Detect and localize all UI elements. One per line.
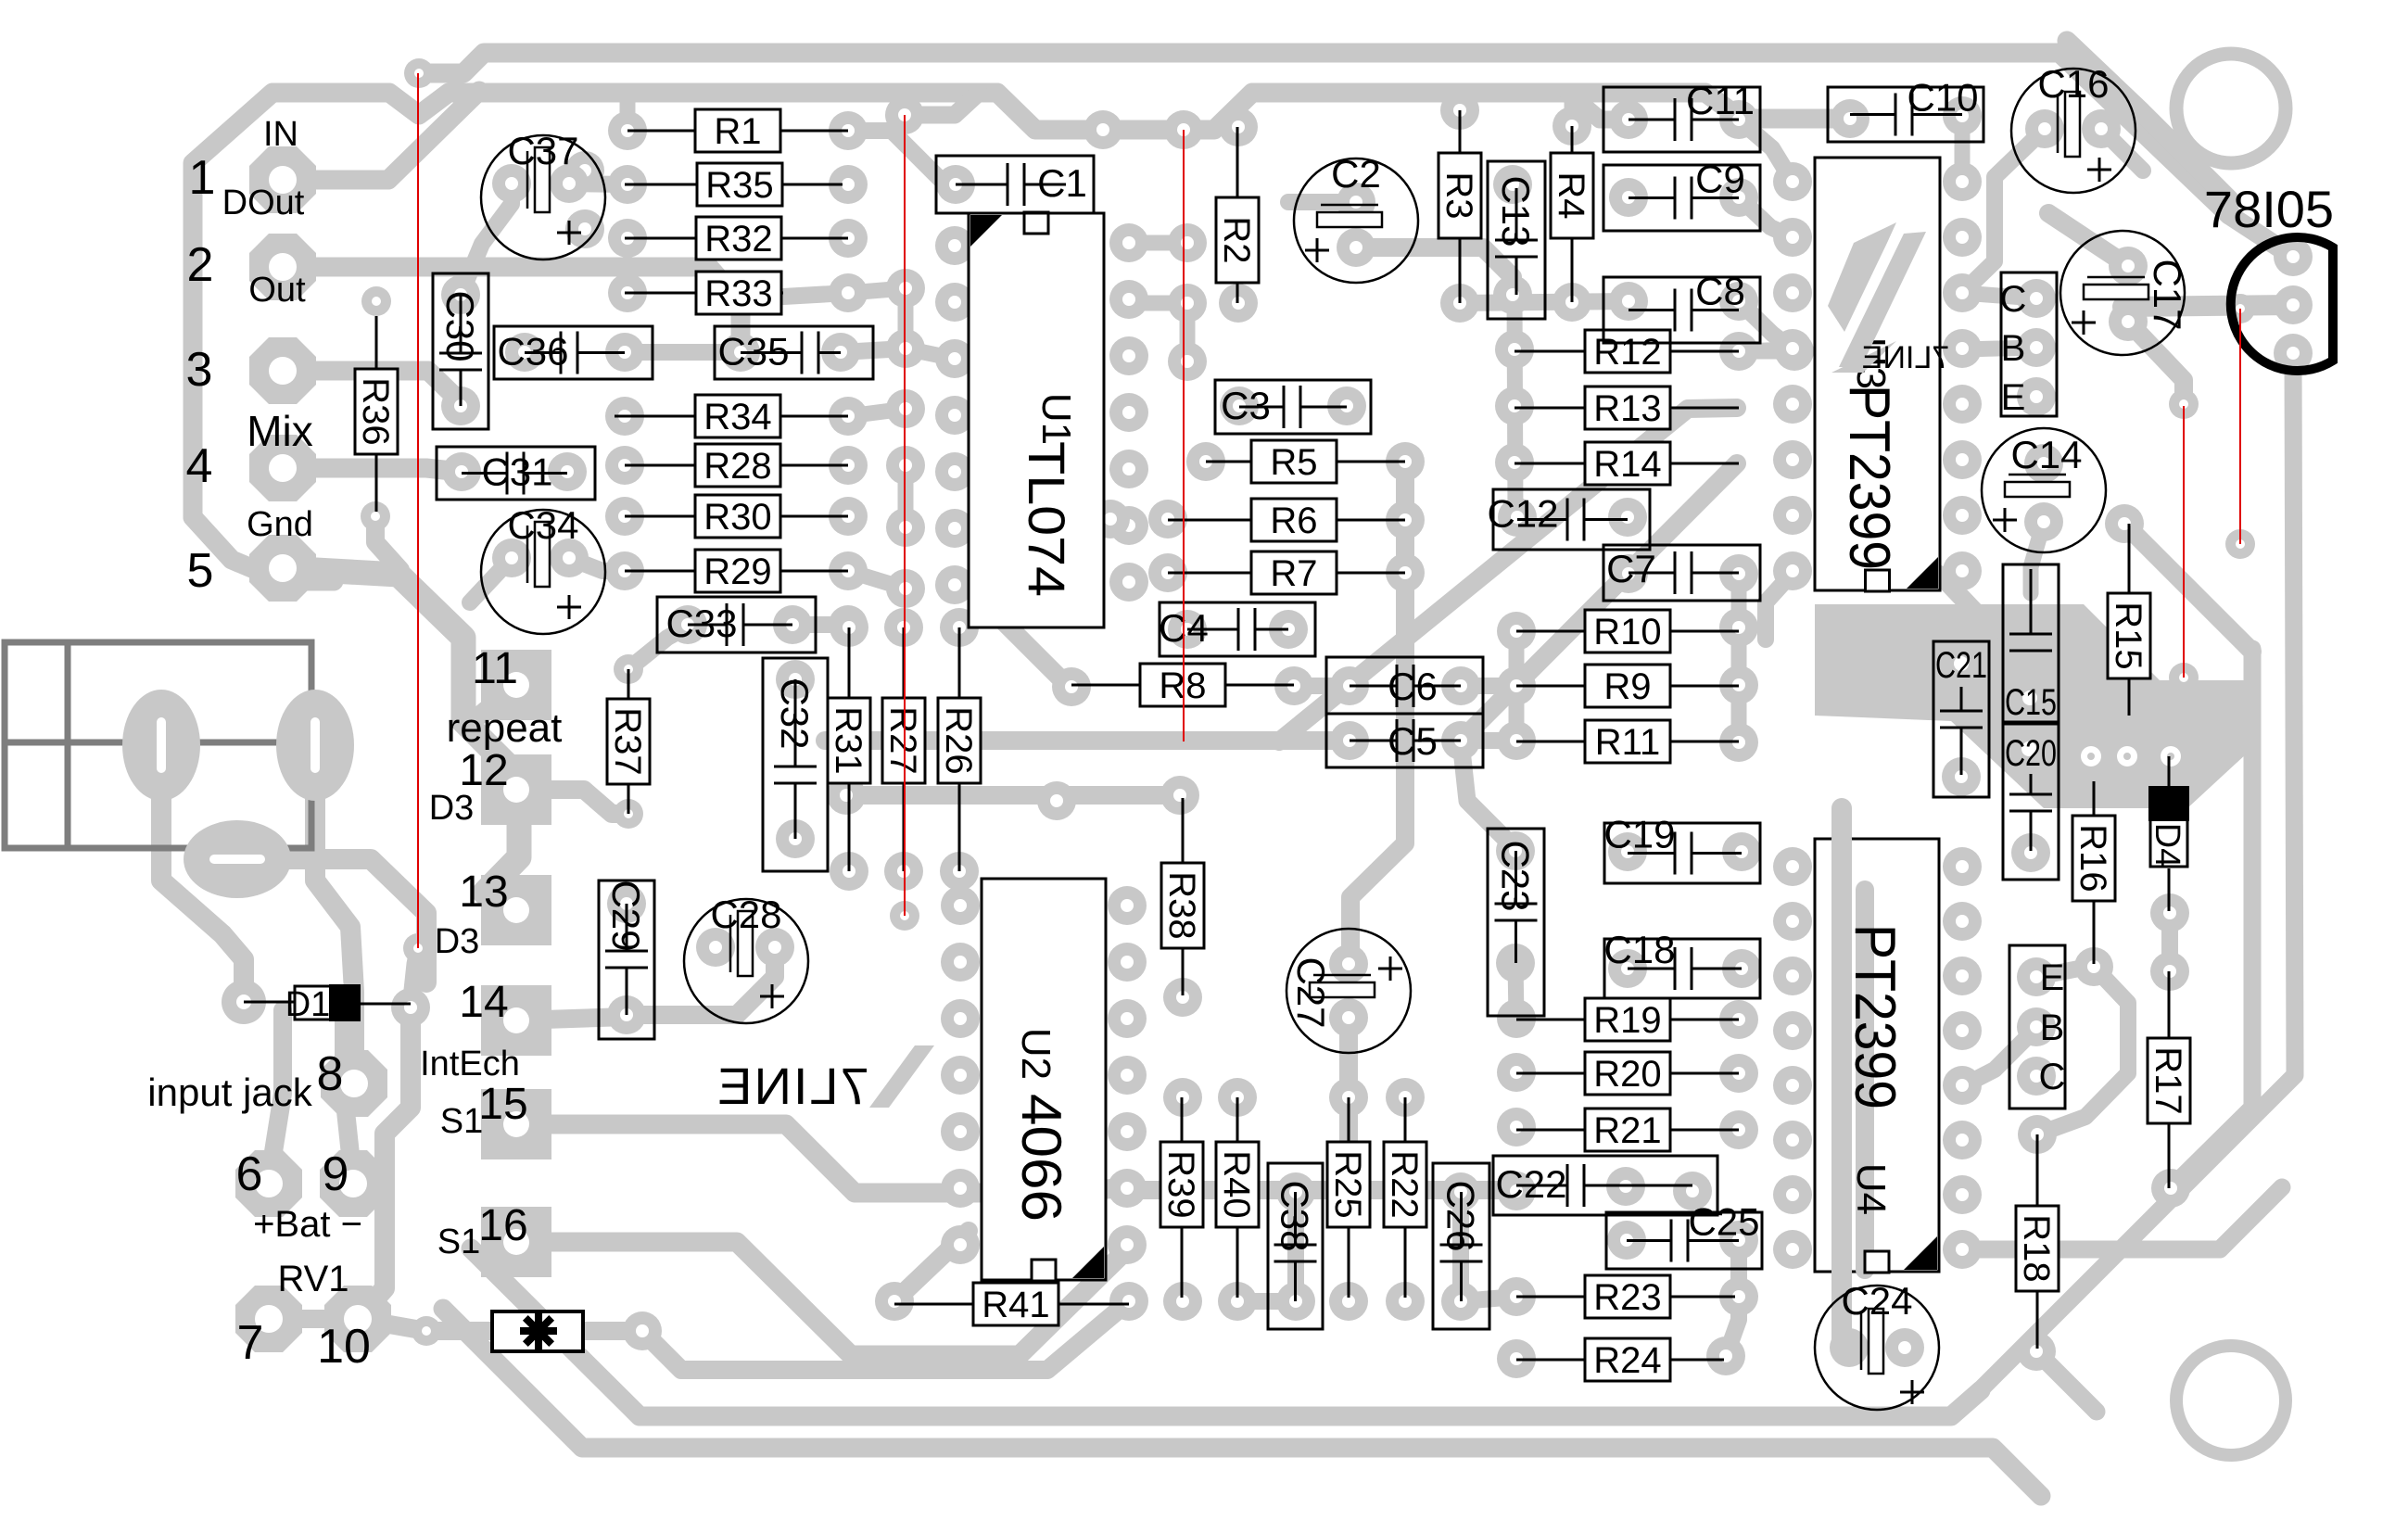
watermark logo inside U3 xyxy=(1839,232,1926,367)
R15/R16/D4/R17/R18 pads xyxy=(2105,504,2144,543)
wire R33 long xyxy=(783,293,848,297)
wire C11/C9/C8 to U3 xyxy=(1739,120,1793,182)
x977 pad chain xyxy=(886,269,925,308)
left resistor col pads xyxy=(608,111,647,150)
C25/R23/R24 pads xyxy=(1607,1221,1646,1260)
resistor R38 xyxy=(1182,798,1185,863)
pour vias xyxy=(2081,746,2101,766)
capacitor C10 xyxy=(1828,87,1983,142)
C30/C36/C35/C31 pads xyxy=(441,275,480,314)
svg-text:RV1: RV1 xyxy=(277,1259,349,1299)
svg-text:R31: R31 xyxy=(828,706,868,774)
capacitor C24 (electrolytic) xyxy=(1815,1286,1939,1410)
resistor R8 xyxy=(1071,684,1140,687)
wire C16 region xyxy=(1962,129,2045,293)
C19/C18 pads xyxy=(1608,832,1647,871)
svg-text:E: E xyxy=(2001,377,2026,418)
capacitor C30 xyxy=(433,273,488,429)
capacitor C1 xyxy=(936,156,1094,213)
resistor R37 xyxy=(627,669,630,699)
wire 11 to gnd band xyxy=(468,685,516,725)
svg-text:C8: C8 xyxy=(1695,270,1745,313)
C27 pads xyxy=(1329,944,1368,983)
resistor R24 xyxy=(1516,1359,1585,1362)
capacitor C34 (electrolytic) xyxy=(481,510,605,634)
svg-text:C13: C13 xyxy=(1494,175,1538,247)
svg-text:16: 16 xyxy=(478,1201,527,1250)
svg-text:R5: R5 xyxy=(1270,442,1317,483)
svg-text:C21: C21 xyxy=(1935,645,1987,686)
svg-text:DOut: DOut xyxy=(222,184,305,222)
svg-text:R3: R3 xyxy=(1438,171,1479,219)
resistor R3 xyxy=(1459,110,1462,153)
wire to pads 6/9 xyxy=(269,1010,283,1181)
capacitor C27 (electrolytic) xyxy=(1286,929,1411,1053)
R37 pads xyxy=(614,654,643,684)
C24 pads xyxy=(1830,1328,1869,1367)
svg-text:R9: R9 xyxy=(1603,666,1651,707)
svg-text:R35: R35 xyxy=(705,165,773,206)
svg-text:C30: C30 xyxy=(438,290,482,361)
C15/C20/C21 pads xyxy=(2011,833,2050,872)
svg-text:2: 2 xyxy=(187,238,214,292)
svg-text:4: 4 xyxy=(186,439,213,493)
wire C36-C35 row xyxy=(625,344,741,361)
wire R31/R27/R26 top row long xyxy=(825,731,1339,750)
resistor R34 xyxy=(615,415,695,418)
U1 right extra xyxy=(1168,223,1207,262)
resistor R12 xyxy=(1515,350,1585,353)
diode D1 xyxy=(244,1001,295,1004)
R6/R7 pads xyxy=(1091,500,1130,538)
capacitor C2 (electrolytic) xyxy=(1294,158,1418,283)
wire R24 right diag xyxy=(1726,1240,1739,1356)
capacitor C17 (electrolytic) xyxy=(2060,231,2185,355)
wire 15 to U2 xyxy=(516,1124,1127,1193)
capacitor C21 xyxy=(1933,641,1989,797)
C11/C9/C8/C10 pads xyxy=(1609,100,1648,139)
resistor R41 xyxy=(894,1303,973,1306)
resistor R9 xyxy=(1516,685,1585,688)
R2/C2/R3/C13/R4 pads xyxy=(1219,108,1258,146)
svg-text:+Bat −: +Bat − xyxy=(253,1204,362,1245)
transistor 78I05 TO-92 outline xyxy=(2231,237,2333,371)
svg-text:R23: R23 xyxy=(1593,1277,1661,1318)
C6/C5 pads xyxy=(1330,666,1369,705)
svg-text:C24: C24 xyxy=(1841,1279,1912,1323)
svg-text:C17: C17 xyxy=(2146,259,2189,330)
resistor R25 xyxy=(1348,1097,1350,1142)
wire C11 feed xyxy=(1568,93,1630,120)
C16/C17/78I05 pads xyxy=(2025,109,2064,148)
wire R38 top row xyxy=(846,786,1180,805)
C22 right pads xyxy=(1606,1167,1645,1206)
wire U4 feed verticals xyxy=(1831,808,1852,843)
red rubber line 3 xyxy=(1183,130,1185,741)
svg-text:PT2399: PT2399 xyxy=(1843,924,1907,1109)
mounting rings xyxy=(2176,54,2286,163)
red rubber line 5 xyxy=(2239,309,2241,544)
misc small pads xyxy=(404,58,434,88)
resistor R33 xyxy=(625,292,696,295)
resistor R32 xyxy=(625,237,696,240)
resistor R6 xyxy=(1168,519,1251,522)
svg-text:4066: 4066 xyxy=(1010,1094,1072,1222)
wire mid diagonal A xyxy=(1279,408,1737,741)
resistor R4 xyxy=(1571,126,1574,153)
wire R1 left drop xyxy=(620,96,636,131)
svg-text:7LINE: 7LINE xyxy=(716,1057,869,1115)
svg-text:C37: C37 xyxy=(507,129,578,172)
red rubber line 2 xyxy=(904,115,906,916)
C28/C29 pads xyxy=(607,884,646,923)
wire C13 chain down xyxy=(1515,295,1515,517)
svg-text:3: 3 xyxy=(186,343,213,397)
resistor R16 xyxy=(2093,781,2096,816)
wire Gnd / border bottom-left xyxy=(193,517,334,581)
C4/R8 pads xyxy=(1168,610,1207,649)
wire C34 side links xyxy=(569,558,625,571)
svg-text:PT2399: PT2399 xyxy=(1837,385,1901,570)
svg-text:C14: C14 xyxy=(2010,433,2082,476)
capacitor C11 xyxy=(1603,87,1760,152)
svg-text:D3: D3 xyxy=(435,922,480,961)
svg-text:7: 7 xyxy=(237,1316,264,1370)
svg-text:78I05: 78I05 xyxy=(2204,180,2334,238)
svg-text:C15: C15 xyxy=(2005,682,2057,723)
wire pour area xyxy=(1815,604,2260,808)
svg-text:R13: R13 xyxy=(1593,388,1661,429)
capacitor C9 xyxy=(1603,165,1760,231)
resistor R20 xyxy=(1516,1072,1585,1075)
svg-text:R25: R25 xyxy=(1327,1150,1368,1218)
wire U1 right connectors xyxy=(1129,235,1187,251)
svg-text:1: 1 xyxy=(189,151,216,205)
svg-text:U4: U4 xyxy=(1848,1163,1894,1215)
svg-text:E: E xyxy=(2040,957,2065,998)
jack pads (ovals) xyxy=(122,690,200,801)
svg-text:R1: R1 xyxy=(714,111,761,152)
R41 pads xyxy=(875,1282,914,1321)
diode D4 xyxy=(2168,756,2171,786)
resistor R23 xyxy=(1516,1296,1585,1299)
svg-text:C6: C6 xyxy=(1388,665,1438,708)
svg-text:C3: C3 xyxy=(1221,384,1271,427)
wire inner loop xyxy=(2171,649,2252,1188)
resistor R35 xyxy=(625,184,697,186)
svg-text:13: 13 xyxy=(459,868,508,917)
header C B E xyxy=(2001,272,2057,416)
svg-text:R33: R33 xyxy=(704,273,772,314)
svg-text:C25: C25 xyxy=(1688,1200,1759,1244)
svg-text:C28: C28 xyxy=(710,893,781,936)
capacitor C3 xyxy=(1215,380,1371,434)
svg-text:11: 11 xyxy=(472,644,518,693)
IC U1 TL074 xyxy=(969,213,1104,627)
wire C17 row to 78I05 xyxy=(2123,305,2293,307)
red rubber line 1 xyxy=(417,73,419,948)
wire 16 to U2 xyxy=(516,1242,1127,1355)
C32 pads xyxy=(776,660,815,699)
svg-text:R21: R21 xyxy=(1593,1110,1661,1151)
svg-text:5: 5 xyxy=(187,544,214,598)
svg-text:C29: C29 xyxy=(604,880,648,951)
resistor R5 xyxy=(1206,461,1251,463)
svg-text:C31: C31 xyxy=(481,450,552,494)
capacitor C4 xyxy=(1160,602,1315,656)
svg-text:R17: R17 xyxy=(2148,1046,2188,1114)
capacitor C7 xyxy=(1603,545,1760,601)
U3 pads xyxy=(1773,162,1812,201)
svg-text:R32: R32 xyxy=(704,219,772,260)
svg-text:8: 8 xyxy=(317,1047,344,1101)
resistor R19 xyxy=(1516,1019,1585,1021)
wire R3/R4 top stubs xyxy=(1452,93,1468,110)
wire R5-R7 right vertical xyxy=(1350,462,1405,964)
svg-text:Gnd: Gnd xyxy=(247,505,313,544)
wire R1 to C1 xyxy=(848,131,956,184)
svg-text:R2: R2 xyxy=(1216,216,1257,263)
C12 pads xyxy=(1498,498,1537,537)
capacitor C14 (electrolytic) xyxy=(1982,428,2106,552)
svg-text:D1: D1 xyxy=(285,985,331,1024)
svg-text:R37: R37 xyxy=(607,707,648,775)
svg-text:15: 15 xyxy=(478,1080,527,1129)
U4 pads xyxy=(1773,847,1812,886)
resistor R1 xyxy=(627,130,695,133)
svg-text:R20: R20 xyxy=(1593,1054,1661,1095)
wire diag C16 to 78I05 xyxy=(2067,41,2229,215)
svg-text:R41: R41 xyxy=(982,1285,1049,1325)
resistor R15 xyxy=(2128,524,2131,593)
svg-text:C26: C26 xyxy=(1439,1180,1483,1251)
resistor R11 xyxy=(1516,741,1585,743)
svg-text:R24: R24 xyxy=(1593,1340,1661,1381)
capacitor C26 xyxy=(1433,1163,1489,1329)
resistor R40 xyxy=(1236,1097,1239,1142)
wire R40-C38 bottoms xyxy=(1237,1293,1296,1310)
U1 pads xyxy=(935,226,974,265)
wire diag down through C17 xyxy=(2048,213,2128,266)
svg-text:Mix: Mix xyxy=(247,407,313,455)
D1 pads xyxy=(222,980,266,1024)
svg-text:C27: C27 xyxy=(1289,957,1333,1028)
svg-text:R29: R29 xyxy=(703,551,771,592)
resistor R18 xyxy=(2036,1134,2039,1206)
C33 bottom pads xyxy=(827,776,866,815)
wire mid diagonal B xyxy=(1461,463,1737,741)
wire C23 top diag xyxy=(1461,741,1515,849)
svg-text:C11: C11 xyxy=(1686,79,1755,122)
wire C38/C26 verticals xyxy=(1287,1192,1304,1301)
resistor R29 xyxy=(625,570,695,573)
svg-text:R34: R34 xyxy=(703,397,771,437)
resistor R14 xyxy=(1515,462,1585,465)
svg-text:D3: D3 xyxy=(429,789,475,828)
svg-text:R28: R28 xyxy=(703,446,771,487)
C7/R10 chain pads xyxy=(1609,554,1648,593)
svg-text:B: B xyxy=(2040,1007,2065,1048)
resistor R2 xyxy=(1236,127,1239,197)
big diagonal from U1 bottom-left xyxy=(984,602,1071,687)
IC U3 PT2399 xyxy=(1815,158,1940,590)
capacitor C15 xyxy=(2003,564,2059,722)
C23 pads xyxy=(1496,831,1535,870)
svg-text:C7: C7 xyxy=(1606,547,1656,590)
wire C10 down xyxy=(1955,116,1971,182)
svg-text:6: 6 xyxy=(236,1147,263,1201)
wire R12/13/14 to U3 xyxy=(1739,349,1793,351)
wire C2 row xyxy=(1288,194,1356,210)
svg-text:C18: C18 xyxy=(1603,928,1675,971)
resistor R10 xyxy=(1516,630,1585,633)
svg-text:S1: S1 xyxy=(437,1223,480,1261)
svg-text:7LINE: 7LINE xyxy=(1862,340,1950,375)
resistor R39 xyxy=(1181,1097,1184,1142)
IC U2 4066 xyxy=(982,879,1106,1280)
capacitor C6 / C5 pair xyxy=(1326,657,1483,767)
svg-text:R10: R10 xyxy=(1593,612,1661,652)
svg-text:input jack: input jack xyxy=(147,1071,312,1114)
svg-text:R14: R14 xyxy=(1593,444,1661,485)
IC U4 PT2399 xyxy=(1815,839,1939,1272)
resistor R21 xyxy=(1516,1129,1585,1132)
wire LED to R41 right xyxy=(642,1301,1129,1370)
svg-text:U2: U2 xyxy=(1013,1028,1058,1080)
resistor R36 xyxy=(375,316,378,369)
wire row 1284 xyxy=(1127,1181,1516,1199)
svg-text:C16: C16 xyxy=(2037,62,2109,106)
wire 12 to R37 xyxy=(516,790,628,814)
capacitor C13 xyxy=(1488,161,1545,319)
svg-text:C1: C1 xyxy=(1037,161,1087,205)
capacitor C18 xyxy=(1604,939,1760,998)
svg-text:U1: U1 xyxy=(1033,393,1079,445)
jack wires xyxy=(161,779,244,999)
wire R8 right to C6 xyxy=(1294,678,1350,694)
svg-text:C36: C36 xyxy=(497,330,568,374)
bottom header pads xyxy=(2017,957,2056,996)
svg-text:R27: R27 xyxy=(882,706,923,774)
svg-text:C: C xyxy=(2039,1057,2066,1097)
svg-text:R6: R6 xyxy=(1270,500,1317,541)
svg-text:C34: C34 xyxy=(507,503,578,547)
capacitor C22 xyxy=(1493,1156,1717,1215)
capacitor C35 xyxy=(715,326,873,379)
wire DOut xyxy=(283,267,741,352)
svg-text:C35: C35 xyxy=(717,330,789,374)
resistor R7 xyxy=(1168,572,1251,575)
U2 pads xyxy=(941,886,980,925)
capacitor C31 xyxy=(437,447,595,500)
wire R3-R4-C8 row xyxy=(1460,301,1629,303)
resistor R30 xyxy=(625,515,695,518)
capacitor C33 xyxy=(657,597,816,652)
svg-text:C23: C23 xyxy=(1494,840,1538,911)
resistor R27 xyxy=(903,627,906,698)
wire C7 chain xyxy=(1731,574,1747,742)
svg-text:Out: Out xyxy=(248,271,306,310)
bottom bundle B2 xyxy=(443,1309,2041,1496)
input jack xyxy=(5,642,311,848)
capacitor C8 xyxy=(1603,277,1760,343)
wire r-col connectors xyxy=(848,288,906,293)
svg-text:R15: R15 xyxy=(2108,602,2148,669)
svg-text:repeat: repeat xyxy=(447,705,563,751)
svg-text:R11: R11 xyxy=(1595,722,1660,763)
top header pads xyxy=(2017,279,2056,318)
connector pads 1-5 xyxy=(249,146,316,213)
capacitor C32 xyxy=(763,658,828,871)
svg-text:14: 14 xyxy=(459,978,508,1027)
wire C37-R35 xyxy=(569,184,625,184)
svg-text:R26: R26 xyxy=(938,706,979,774)
wire 14 to C29 xyxy=(516,1017,627,1020)
svg-text:R19: R19 xyxy=(1593,1000,1661,1041)
wire C30 to C37 xyxy=(461,184,512,295)
capacitor C16 (electrolytic) xyxy=(2011,69,2136,193)
resistor R26 xyxy=(958,627,961,698)
svg-text:R18: R18 xyxy=(2016,1214,2057,1282)
svg-text:R38: R38 xyxy=(1161,871,1202,939)
svg-text:TL074: TL074 xyxy=(1018,441,1076,597)
LED (asterisk box) xyxy=(492,1311,583,1351)
wire D1 to D3 pad and down xyxy=(411,950,418,1007)
wire Out xyxy=(283,371,461,402)
capacitor C29 xyxy=(599,881,654,1039)
wire C6/C5 right to R9/R11 xyxy=(1461,678,1516,694)
svg-text:R39: R39 xyxy=(1160,1150,1201,1218)
capacitor C38 xyxy=(1268,1163,1323,1329)
C37/C34 pads xyxy=(492,164,531,203)
svg-text:R7: R7 xyxy=(1270,553,1317,594)
svg-text:C22: C22 xyxy=(1495,1162,1566,1206)
capacitor C37 (electrolytic) xyxy=(481,135,605,260)
capacitor C36 xyxy=(494,326,653,379)
pin pads 11-16 xyxy=(481,650,551,720)
svg-text:R16: R16 xyxy=(2072,824,2113,892)
svg-text:C9: C9 xyxy=(1695,158,1745,201)
resistor R28 xyxy=(625,464,695,467)
svg-text:S1: S1 xyxy=(440,1102,483,1141)
capacitor C28 (electrolytic) xyxy=(684,899,808,1023)
svg-text:C20: C20 xyxy=(2005,733,2057,774)
svg-text:9: 9 xyxy=(323,1147,349,1201)
wire RV1 row xyxy=(269,1319,492,1331)
connector pads 6-10 xyxy=(235,1150,302,1217)
svg-text:C2: C2 xyxy=(1331,152,1381,196)
capacitor C20 xyxy=(2003,724,2059,880)
svg-text:IntEch: IntEch xyxy=(420,1045,520,1083)
capacitor C25 xyxy=(1606,1212,1762,1269)
wire R37 to C33 xyxy=(628,627,688,669)
svg-text:IN: IN xyxy=(263,115,298,154)
wire right vertical long xyxy=(1981,353,2295,1389)
red rubber line 4 xyxy=(2183,406,2185,678)
wire C27 down xyxy=(1339,1018,1358,1190)
svg-text:R36: R36 xyxy=(355,377,396,445)
svg-text:C12: C12 xyxy=(1487,492,1558,536)
svg-text:C: C xyxy=(2000,279,2027,320)
wire U3 bottom to pour xyxy=(1940,575,1993,630)
capacitor C19 xyxy=(1604,823,1760,883)
R38-R40 etc pads xyxy=(1163,978,1202,1017)
svg-text:C38: C38 xyxy=(1274,1180,1317,1251)
bottom bundle B1 xyxy=(471,1248,1981,1416)
board outline trace top/left xyxy=(419,53,2293,257)
R12-R14 col pads xyxy=(1495,330,1534,369)
capacitor C23 xyxy=(1488,829,1544,1016)
